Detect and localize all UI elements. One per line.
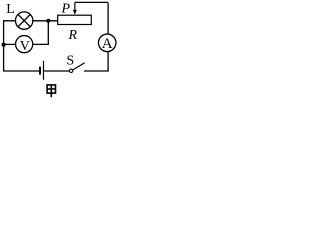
wire right vertical lower <box>84 51 108 71</box>
svg-text:V: V <box>20 39 30 54</box>
svg-text:P: P <box>61 1 71 16</box>
svg-text:A: A <box>102 36 113 52</box>
rheostat slider arrow <box>74 2 76 10</box>
switch S blade <box>73 63 85 70</box>
voltmeter V circle <box>16 36 33 53</box>
junction node top <box>46 19 50 23</box>
wire battery to switch <box>44 70 69 72</box>
svg-text:R: R <box>68 28 78 43</box>
label 甲 drawn strokes <box>47 85 55 97</box>
svg-text:S: S <box>66 54 74 69</box>
wire right vertical upper <box>107 2 109 34</box>
resistor R rheostat body <box>58 15 92 24</box>
junction node left <box>2 43 6 47</box>
svg-text:L: L <box>6 2 15 17</box>
switch S pivot <box>69 69 72 72</box>
wire left loop: lamp left lead, left vertical, bottom-left horizontal <box>4 21 40 71</box>
wire voltmeter left lead <box>4 43 16 45</box>
wire lamp to rheostat <box>32 20 57 22</box>
lamp L1 circle <box>15 12 32 29</box>
ammeter A circle <box>98 34 116 52</box>
battery cell short plate <box>39 67 41 75</box>
wire junction down to voltmeter right <box>32 21 48 45</box>
lamp X cross <box>18 14 30 26</box>
wire top from slider to right <box>75 1 108 3</box>
battery cell long plate <box>43 61 45 80</box>
